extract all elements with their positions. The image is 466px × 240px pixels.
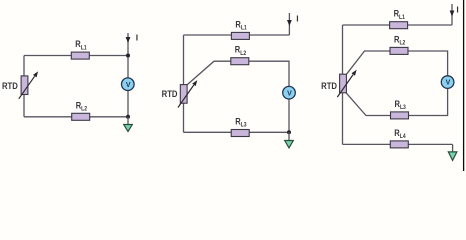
wire C2 bottom (RTD to node C)	[184, 131, 290, 133]
ground (C2)	[285, 141, 294, 148]
svg-text:V: V	[126, 82, 131, 89]
wire C2 ground stem	[288, 132, 290, 140]
RTD variable arrow (C1)	[19, 76, 35, 99]
svg-text:V: V	[446, 80, 451, 87]
svg-text:RTD: RTD	[321, 80, 337, 91]
svg-text:RL1: RL1	[235, 19, 246, 32]
junction node B (C1 bottom)	[126, 115, 130, 119]
svg-text:RL3: RL3	[395, 98, 406, 111]
wire C2 top (RTD to I)	[184, 34, 290, 36]
resistor RL1 (C1 lead 1)	[71, 52, 89, 59]
svg-text:RL1: RL1	[394, 8, 405, 21]
frame border line (right edge)	[463, 0, 465, 171]
resistor RL4 (C3 lead 4)	[390, 141, 408, 148]
wire C1 node A to voltmeter	[127, 56, 129, 78]
resistor RL3 (C2 lead 3)	[231, 130, 249, 137]
svg-text:I: I	[136, 33, 138, 43]
current source arrow I (C1)	[127, 33, 129, 56]
svg-text:RL3: RL3	[235, 116, 246, 129]
wire C1 top (RTD to node A)	[24, 55, 128, 57]
RTD sensor (C3)	[340, 74, 347, 93]
wire C2 left vertical	[183, 35, 185, 132]
resistor RL2 (C1 lead 2)	[72, 113, 90, 120]
RTD sensor (C1)	[21, 76, 28, 95]
wire C1 ground stem	[127, 117, 129, 125]
voltmeter V (C2)	[283, 86, 296, 99]
svg-text:I: I	[456, 5, 458, 15]
current source arrow I (C2)	[288, 13, 290, 35]
svg-text:RL4: RL4	[394, 127, 406, 140]
junction node C (C2 bottom)	[287, 130, 291, 134]
ground (C3)	[448, 152, 457, 161]
wire C3 left vertical	[342, 25, 344, 144]
wire C1 voltmeter to node B	[127, 91, 129, 117]
wire C2 voltmeter to node C	[288, 99, 290, 132]
svg-text:RTD: RTD	[2, 81, 18, 92]
svg-text:V: V	[287, 90, 292, 97]
svg-text:RL2: RL2	[76, 100, 87, 113]
svg-text:RTD: RTD	[162, 88, 178, 99]
junction node A (C1 top)	[126, 54, 130, 58]
resistor RL2 (C2 lead 2)	[231, 58, 249, 65]
RTD variable arrow (C3)	[337, 75, 353, 98]
resistor RL1 (C3 lead 1)	[390, 22, 408, 29]
resistor RL1 (C2 lead 1)	[231, 32, 249, 39]
wire C3 sense diagonal from RTD bottom to voltmeter -	[346, 88, 447, 115]
ground (C1)	[124, 125, 133, 132]
svg-text:RL1: RL1	[75, 38, 86, 51]
RTD sensor (C2)	[180, 85, 187, 104]
wire C1 left vertical	[23, 56, 25, 117]
wire C3 bottom (RTD to ground)	[343, 143, 453, 145]
voltmeter V (C3)	[441, 76, 454, 89]
svg-text:RL2: RL2	[394, 34, 405, 47]
RTD variable arrow (C2)	[178, 85, 194, 108]
resistor RL3 (C3 lead 3)	[391, 112, 409, 119]
wire C3 ground stem	[452, 144, 454, 152]
current source arrow I (C3)	[451, 4, 453, 25]
wire C3 sense diagonal from RTD top to voltmeter +	[347, 51, 448, 76]
wire C3 top (RTD to I)	[343, 24, 453, 26]
wire C2 sense diagonal from RTD top	[187, 61, 289, 86]
resistor RL2 (C3 lead 2)	[390, 47, 408, 54]
voltmeter V (C1)	[122, 78, 135, 91]
svg-text:I: I	[296, 14, 298, 24]
svg-text:RL2: RL2	[235, 44, 246, 57]
wire C1 bottom (RTD to node B)	[24, 116, 128, 118]
